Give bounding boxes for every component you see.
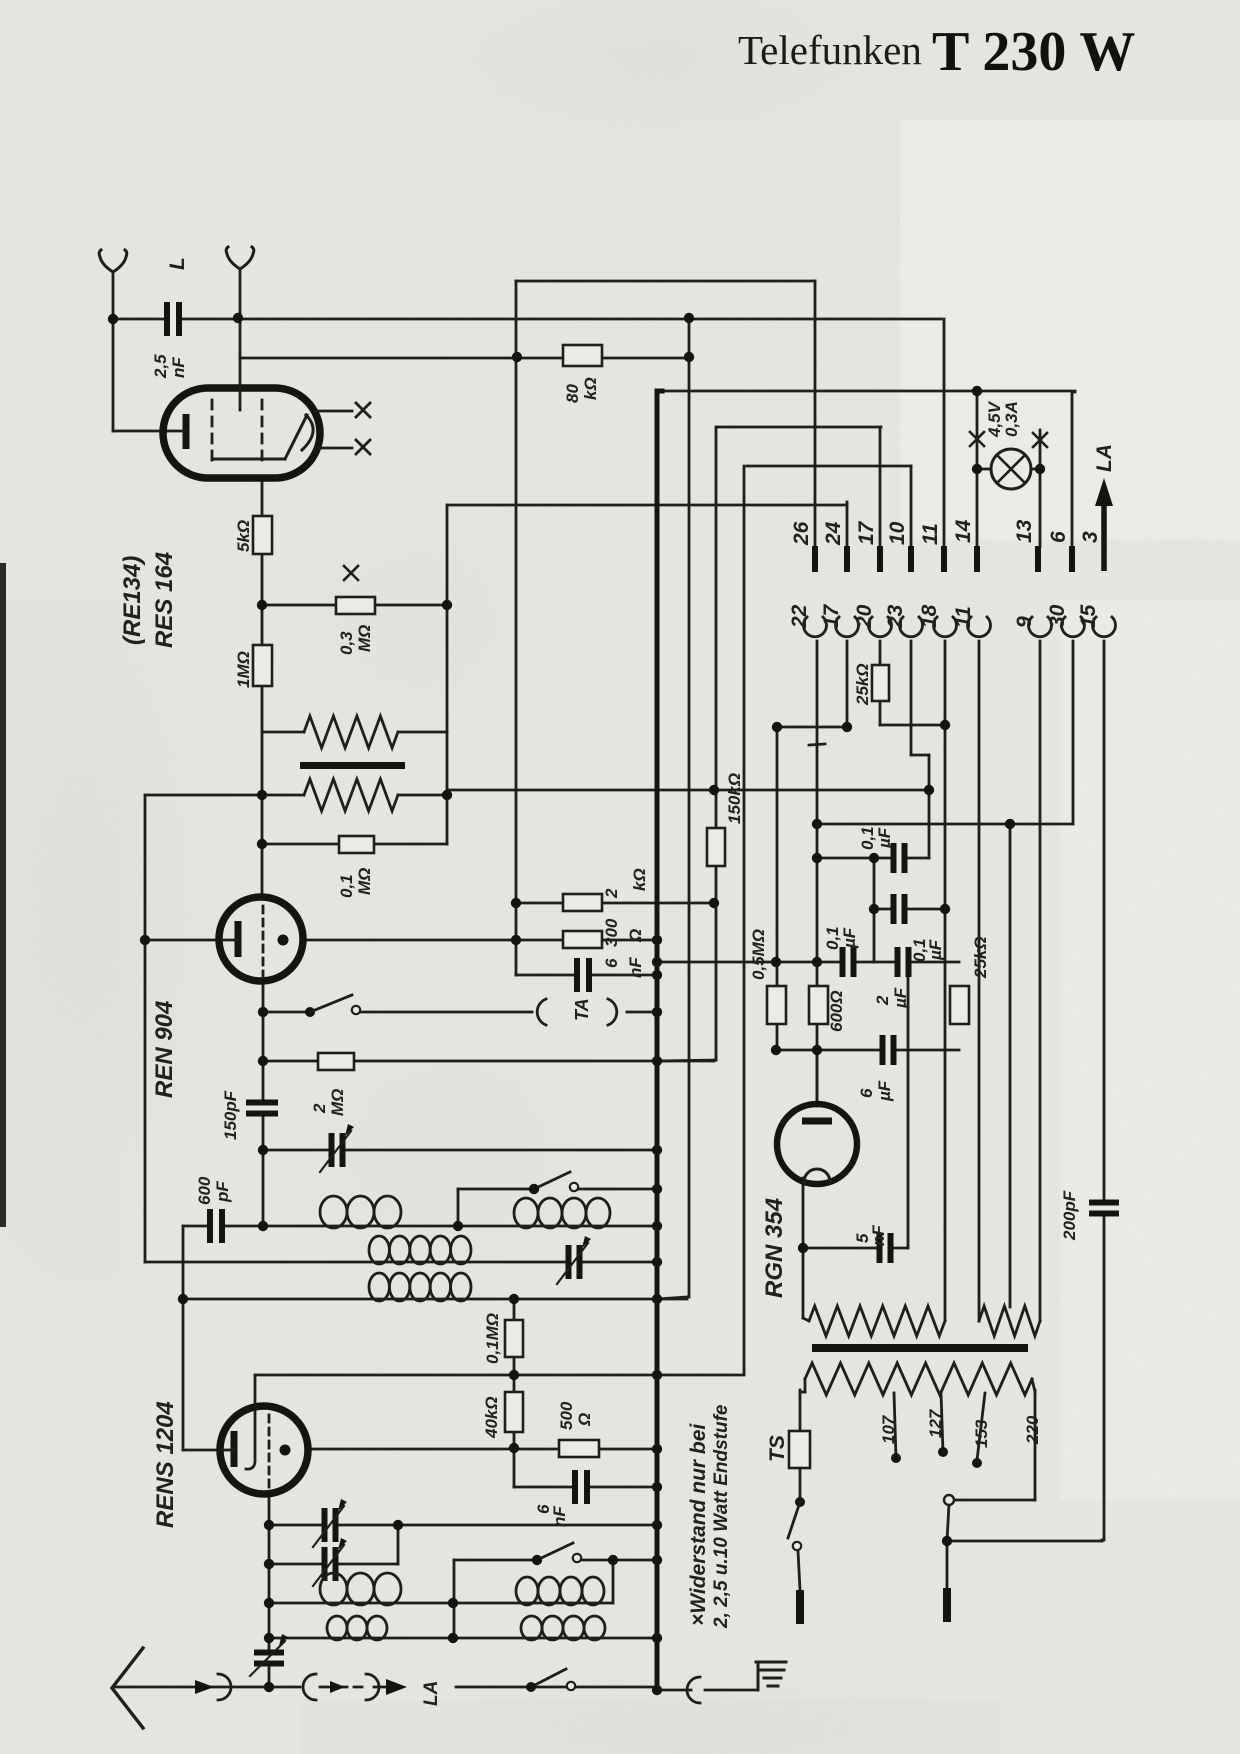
wire TA line right bbox=[627, 1011, 657, 1014]
mains transformer core bbox=[812, 1344, 1028, 1352]
resistor 5k bbox=[253, 516, 272, 554]
connector arc 4 bbox=[687, 1677, 700, 1703]
wire left column x145 bbox=[144, 795, 147, 1262]
wire column x716 bbox=[715, 427, 718, 1060]
wire socket9 column x1040 bbox=[1039, 641, 1042, 1321]
wire TA line mid bbox=[361, 1011, 532, 1014]
svg-text:80: 80 bbox=[563, 384, 582, 403]
wire transformer secondary lead right bbox=[398, 794, 447, 797]
tube RES164 (RE134) envelope bbox=[163, 388, 320, 478]
wire coil riser x613 bbox=[612, 1560, 615, 1603]
wire RENS1204 left lead bbox=[183, 1449, 222, 1452]
wire grid/80k line y357 bbox=[240, 357, 689, 360]
wire corner y1297 bbox=[657, 1297, 687, 1299]
arrow right small on bottom line bbox=[195, 1680, 214, 1694]
svg-text:22: 22 bbox=[788, 604, 811, 629]
resistor 0,5M bbox=[767, 986, 786, 1024]
wire RENS grid line y1375 bbox=[255, 1374, 744, 1377]
svg-text:0,3A: 0,3A bbox=[1002, 401, 1021, 437]
wire column x689 bbox=[688, 318, 691, 1297]
svg-text:6: 6 bbox=[1047, 531, 1070, 543]
svg-text:Ω: Ω bbox=[575, 1413, 594, 1427]
wire TA line left bbox=[263, 1011, 310, 1014]
svg-text:24: 24 bbox=[822, 521, 845, 546]
variable capacitor row2 bbox=[568, 1245, 581, 1279]
resistor 300ohm bbox=[563, 931, 602, 948]
capacitor 600pF bbox=[209, 1209, 223, 1243]
variable capacitor antenna trimmer bbox=[254, 1652, 284, 1665]
svg-text:9: 9 bbox=[1013, 616, 1036, 628]
tick mark on socket22 column bbox=[809, 744, 825, 745]
wire coil row3 y1299 bbox=[183, 1298, 687, 1301]
wire cap link y858 bbox=[817, 857, 929, 860]
variable capacitor RENS no2 bbox=[324, 1547, 337, 1581]
mains prong left bbox=[796, 1590, 804, 1624]
svg-text:20: 20 bbox=[853, 604, 876, 629]
wire 6nF line y975 bbox=[516, 974, 657, 977]
resistor 150k bbox=[707, 828, 725, 866]
wire switch line y1560 bbox=[454, 1559, 537, 1562]
svg-text:150kΩ: 150kΩ bbox=[725, 773, 744, 824]
wire terminal17 column x880 bbox=[879, 427, 882, 546]
resistor 25k top bbox=[872, 665, 889, 701]
mains prong right bbox=[943, 1588, 951, 1622]
heater winding A (RGN filament) bbox=[809, 1306, 945, 1336]
capacitor 150pF bbox=[246, 1102, 278, 1115]
resistor 0,1M top bbox=[339, 836, 374, 853]
RES164 anode curve bbox=[302, 415, 313, 450]
resistor 0,1M RENS bbox=[505, 1320, 523, 1357]
wire mains column x947 bbox=[947, 1504, 949, 1541]
svg-text:11: 11 bbox=[919, 523, 942, 545]
capacitor 0,1uF no2 bbox=[893, 894, 906, 924]
svg-text:2: 2 bbox=[602, 888, 621, 899]
transformer T1 secondary winding bbox=[304, 779, 398, 811]
wire socket20 link y725 bbox=[880, 724, 945, 727]
wire to ground bbox=[705, 1689, 758, 1692]
svg-text:RES 164: RES 164 bbox=[151, 552, 178, 648]
x mark filament lead 1 bbox=[356, 403, 370, 417]
wire LA terminal column x1104 bbox=[1103, 500, 1106, 525]
terminal 26 stub bbox=[812, 546, 818, 572]
coil L5a RENS rowB bbox=[327, 1616, 387, 1640]
svg-text:26: 26 bbox=[790, 521, 813, 546]
wire mains link y1541 bbox=[947, 1540, 1102, 1543]
svg-text:200pF: 200pF bbox=[1060, 1190, 1079, 1241]
terminal 24 stub bbox=[844, 546, 850, 572]
wire antenna1 stem bbox=[112, 272, 115, 431]
svg-text:×Widerstand nur bei: ×Widerstand nur bei bbox=[687, 1423, 710, 1626]
antenna 2 symbol bbox=[226, 247, 254, 269]
wire tap127 bbox=[941, 1393, 943, 1452]
svg-text:REN 904: REN 904 bbox=[151, 1001, 178, 1098]
terminal 6 stub bbox=[1069, 546, 1075, 572]
wire socket23 column x911 bbox=[910, 641, 913, 755]
svg-text:3: 3 bbox=[1079, 531, 1102, 543]
svg-text:23: 23 bbox=[884, 604, 907, 629]
svg-text:25kΩ: 25kΩ bbox=[853, 663, 872, 706]
wire column x516 bbox=[515, 281, 518, 975]
RES164 cathode bar bbox=[183, 414, 190, 449]
socket 11 bbox=[968, 617, 991, 637]
RES164 anode diagonal bbox=[285, 415, 307, 459]
wire switch line y1189 right bbox=[578, 1188, 657, 1191]
wire y505 to terminal 24 bbox=[447, 504, 847, 507]
wire coil row2 y1262 bbox=[145, 1261, 657, 1264]
RES164 grid dashed 2 bbox=[261, 400, 264, 460]
capacitor 0,1uF no3 bbox=[842, 947, 855, 977]
svg-text:Ω: Ω bbox=[626, 929, 645, 943]
antenna big arrow bottom left bbox=[112, 1648, 143, 1728]
REN904 grid dashed bbox=[262, 906, 265, 976]
svg-text:18: 18 bbox=[918, 604, 941, 628]
wire transformer primary lead right bbox=[398, 731, 447, 734]
wire 300ohm line y940 bbox=[516, 939, 657, 942]
svg-text:0,5MΩ: 0,5MΩ bbox=[749, 929, 768, 980]
resistor 500ohm bbox=[559, 1440, 599, 1457]
resistor 1M bbox=[253, 645, 272, 686]
terminal 14 stub bbox=[974, 546, 980, 572]
wire switch line y1189 bbox=[458, 1188, 534, 1191]
wire lamp right column x1040 bbox=[1039, 430, 1042, 546]
svg-text:LA: LA bbox=[1093, 444, 1116, 472]
svg-text:25kΩ: 25kΩ bbox=[971, 936, 990, 979]
socket 20 bbox=[869, 617, 892, 637]
resistor 40k bbox=[505, 1392, 523, 1432]
wire socket17 link y727 bbox=[777, 726, 847, 729]
svg-text:0,1: 0,1 bbox=[337, 874, 356, 898]
socket 30 bbox=[1062, 617, 1085, 637]
tube RGN354 envelope bbox=[777, 1104, 857, 1184]
RES164 inner bottom bar bbox=[212, 458, 285, 461]
connector arc 2 bbox=[303, 1674, 316, 1700]
coil L4b RENS rowA bbox=[516, 1577, 604, 1605]
wire column x447 bbox=[446, 505, 449, 844]
capacitor 6nF grid trio bbox=[576, 958, 590, 992]
svg-text:µF: µF bbox=[840, 927, 859, 949]
wire antenna1 to tube bbox=[113, 430, 168, 433]
svg-text:220: 220 bbox=[1023, 1415, 1042, 1445]
wire socket30 column x1073 bbox=[1072, 641, 1075, 824]
svg-text:300: 300 bbox=[602, 918, 621, 947]
wire left column x183 bbox=[182, 1226, 185, 1450]
coil L1a row1 bbox=[320, 1196, 401, 1228]
svg-text:30: 30 bbox=[1046, 604, 1069, 628]
wire B+ y824 bbox=[817, 823, 1073, 826]
wire column x777 bbox=[776, 727, 779, 1050]
x mark lamp right bbox=[1033, 433, 1047, 447]
switch bottom already drawn dot bbox=[526, 1682, 536, 1692]
wire 2k line y903 bbox=[516, 902, 714, 905]
wire 2M line y1061 bbox=[263, 1060, 714, 1063]
wire cap2 link y909 bbox=[874, 908, 945, 911]
svg-text:1MΩ: 1MΩ bbox=[234, 651, 253, 688]
wire RENS anode line y1525 bbox=[269, 1524, 657, 1527]
svg-text:Telefunken: Telefunken bbox=[738, 27, 922, 73]
wire fuse column x800 bbox=[799, 1390, 802, 1431]
mains switch bbox=[795, 1497, 805, 1507]
wire bottom line seg1 bbox=[113, 1686, 300, 1689]
wire REN904 plate line right bbox=[303, 939, 516, 942]
capacitor 5nF bbox=[879, 1233, 892, 1263]
wire RENS coil rowA y1603 bbox=[269, 1602, 613, 1605]
tube REN904 envelope bbox=[219, 897, 303, 981]
svg-text:127: 127 bbox=[926, 1408, 945, 1438]
switch bottom contact bbox=[567, 1682, 575, 1690]
svg-text:MΩ: MΩ bbox=[355, 868, 374, 895]
wire switch drop x458 bbox=[457, 1189, 460, 1226]
wire cathode line y962 bbox=[657, 961, 959, 964]
wire transformer secondary baseline y795 bbox=[145, 794, 304, 797]
wire RENS grid cap column x255 bbox=[246, 1375, 255, 1469]
TA jack arc right bbox=[608, 999, 617, 1025]
socket 15 bbox=[1093, 617, 1116, 637]
socket 22 bbox=[804, 617, 827, 637]
svg-text:11: 11 bbox=[952, 606, 975, 628]
wire REN904 grid column x263 bbox=[262, 979, 265, 1226]
REN904 anode dot bbox=[278, 935, 289, 946]
wire socket15 column x1104 bbox=[1103, 641, 1106, 1540]
wire RGN354 top lead x817 (included above) bbox=[816, 1050, 819, 1106]
wire RES164 plate column x262 bbox=[261, 476, 264, 897]
wire socket17 column x847 bbox=[846, 641, 849, 727]
svg-text:0,3: 0,3 bbox=[337, 631, 356, 655]
wire bottom line seg3 bbox=[657, 1689, 691, 1692]
wire socket20 column x880 bbox=[879, 641, 882, 725]
svg-text:5kΩ: 5kΩ bbox=[234, 520, 253, 552]
resistor 2M bbox=[318, 1053, 354, 1070]
wire primary right column x1035 bbox=[1034, 1390, 1037, 1500]
mains primary winding bbox=[805, 1363, 1032, 1395]
REN904 cathode bar bbox=[235, 921, 242, 957]
wire y427 to terminal 17 bbox=[717, 426, 881, 429]
x mark lamp left bbox=[970, 432, 984, 446]
RES164 filament leads bbox=[316, 410, 352, 413]
wire selector line y1500 bbox=[954, 1499, 1035, 1502]
capacitor 200pF bbox=[1089, 1202, 1119, 1215]
wire column x874 bbox=[873, 858, 876, 962]
paper mottling bbox=[0, 0, 900, 230]
svg-text:T 230 W: T 230 W bbox=[932, 21, 1135, 83]
antenna 1 symbol bbox=[99, 250, 127, 272]
connector arc 1 bbox=[218, 1674, 231, 1700]
svg-text:(RE134): (RE134) bbox=[119, 556, 146, 645]
svg-text:600: 600 bbox=[195, 1176, 214, 1205]
capacitor 6uF bbox=[882, 1035, 895, 1065]
socket 17 bbox=[836, 617, 859, 637]
ground symbol bbox=[756, 1662, 786, 1690]
RES164 grid dashed 1 bbox=[211, 400, 214, 460]
capacitor 0,1uF no1 bbox=[893, 843, 906, 873]
svg-text:LA: LA bbox=[421, 1681, 442, 1706]
svg-text:17: 17 bbox=[855, 520, 878, 545]
svg-text:500: 500 bbox=[557, 1401, 576, 1430]
svg-text:µF: µF bbox=[926, 939, 945, 961]
socket 23 bbox=[900, 617, 923, 637]
capacitor 2uF bbox=[897, 947, 910, 977]
wire 0,1M grid line y844 bbox=[262, 843, 447, 846]
wire column x514 bbox=[513, 1299, 516, 1487]
wire tap153 bbox=[977, 1393, 985, 1460]
coil L4a RENS rowA bbox=[320, 1573, 401, 1605]
variable capacitor RENS no1 bbox=[324, 1508, 337, 1542]
wire y466 to terminal 10 bbox=[747, 465, 911, 468]
svg-text:153: 153 bbox=[972, 1419, 991, 1448]
switch wave band 3 (y1560) bbox=[532, 1555, 542, 1565]
wire terminal6 corner y392 bbox=[1072, 391, 1075, 394]
wire socket11 column x979 bbox=[978, 641, 981, 1321]
svg-text:TA: TA bbox=[572, 998, 592, 1021]
resistor 600ohm bbox=[809, 986, 828, 1024]
wire lamp left column x977 bbox=[976, 391, 979, 546]
TA jack arc left bbox=[537, 999, 546, 1025]
wire tap107 bbox=[894, 1393, 896, 1458]
x mark near 0,3M bbox=[344, 566, 358, 580]
main bus x657 bbox=[655, 391, 660, 1692]
wire smoothing line y1050 bbox=[776, 1049, 959, 1052]
wire antenna bus y318 bbox=[113, 318, 941, 321]
switch bottom blade bbox=[531, 1669, 566, 1687]
primary left end drop bbox=[804, 1379, 807, 1392]
wire terminal26 column x815 bbox=[814, 281, 817, 546]
fuse TS bbox=[789, 1431, 810, 1468]
svg-text:kΩ: kΩ bbox=[630, 868, 649, 891]
wire column x744 bbox=[743, 466, 746, 1374]
wire switch drop x454 bbox=[453, 1560, 456, 1638]
svg-text:107: 107 bbox=[879, 1414, 898, 1444]
svg-text:µF: µF bbox=[875, 1080, 894, 1102]
arrow mid dashed bbox=[330, 1681, 345, 1693]
wire socket22 column x817 bbox=[816, 641, 819, 1104]
switch wave band 1 (TA line) bbox=[305, 1007, 315, 1017]
transformer T1 primary winding bbox=[304, 716, 398, 748]
wire long feed y790 bbox=[447, 789, 929, 792]
svg-text:6: 6 bbox=[857, 1088, 876, 1098]
RES164 grid top lead into tube bbox=[239, 388, 242, 410]
coil L3 row3 bbox=[369, 1273, 471, 1301]
wire socket15 corner bbox=[1101, 1540, 1104, 1541]
wire fuse to switch bbox=[799, 1468, 802, 1500]
svg-text:nF: nF bbox=[869, 1225, 888, 1246]
switch wave band 2 (y1189) bbox=[529, 1184, 539, 1194]
connector arc 3 bbox=[366, 1674, 379, 1700]
RGN354 anode arc bbox=[804, 1169, 830, 1182]
svg-text:14: 14 bbox=[952, 519, 975, 543]
svg-text:µF: µF bbox=[891, 987, 910, 1009]
arrow LA right bbox=[386, 1679, 407, 1695]
terminal 10 stub bbox=[908, 546, 914, 572]
svg-text:MΩ: MΩ bbox=[328, 1089, 347, 1116]
wire heater lead corner bbox=[803, 1318, 809, 1321]
RGN354 filament bar bbox=[802, 1118, 832, 1125]
wire switch line y1560 right bbox=[581, 1559, 657, 1562]
RENS1204 anode dot bbox=[280, 1445, 291, 1456]
wire terminal6 column x1072 bbox=[1071, 392, 1074, 546]
lamp 4,5V 0,3A bbox=[991, 449, 1031, 489]
svg-text:6: 6 bbox=[602, 958, 621, 968]
svg-text:pF: pF bbox=[213, 1181, 232, 1203]
scanner edge mark bbox=[0, 563, 6, 1227]
wire var cap link x398 bbox=[397, 1525, 400, 1564]
wire top link y281 bbox=[516, 280, 815, 283]
bus corner y391 bbox=[657, 389, 662, 394]
svg-text:10: 10 bbox=[886, 521, 909, 545]
terminal 11 stub bbox=[941, 546, 947, 572]
svg-text:17: 17 bbox=[820, 603, 843, 628]
wire 5nF line y1248 bbox=[803, 1247, 908, 1250]
voltage selector contact bbox=[944, 1495, 954, 1505]
RENS1204 grid dashed bbox=[268, 1415, 271, 1487]
coil L1b row1 bbox=[514, 1198, 610, 1228]
tap dots bbox=[891, 1453, 901, 1463]
svg-text:2: 2 bbox=[310, 1103, 329, 1114]
wire RGN354 bottom lead x803 bbox=[802, 1178, 805, 1318]
wire terminal10 column x911 bbox=[910, 466, 913, 546]
wire column x929 bbox=[928, 755, 931, 858]
svg-text:40kΩ: 40kΩ bbox=[482, 1396, 501, 1439]
wire LA arrow lead bbox=[374, 1686, 388, 1689]
coil L5b RENS rowB bbox=[521, 1616, 605, 1640]
heater winding B with center tap bbox=[979, 1306, 1040, 1336]
resistor 80k bbox=[563, 345, 602, 366]
wire plate supply y391 bbox=[659, 390, 1075, 393]
terminal 13 stub bbox=[1035, 546, 1041, 572]
svg-text:TS: TS bbox=[766, 1435, 789, 1462]
wire RENS cathode line y1448 bbox=[306, 1448, 657, 1451]
terminal 17 stub bbox=[877, 546, 883, 572]
socket 9 bbox=[1029, 617, 1052, 637]
svg-text:µF: µF bbox=[875, 827, 894, 849]
wire heater CT column x1010 bbox=[1009, 824, 1012, 1307]
coil L2 row2 bbox=[369, 1236, 471, 1264]
LA arrow terminal 3 bbox=[1101, 504, 1107, 571]
wire tuning line y1150 bbox=[263, 1149, 657, 1152]
wire 0,3M line y605 bbox=[262, 604, 447, 607]
svg-text:2,5: 2,5 bbox=[151, 354, 170, 379]
socket 18 bbox=[934, 617, 957, 637]
svg-text:RGN 354: RGN 354 bbox=[761, 1198, 788, 1298]
variable capacitor REN904 tuning bbox=[331, 1133, 344, 1167]
resistor 2k bbox=[563, 894, 602, 911]
capacitor 6nF RENS bbox=[574, 1470, 588, 1504]
svg-text:nF: nF bbox=[550, 1506, 569, 1527]
svg-text:nF: nF bbox=[626, 957, 645, 978]
wire terminal11 column x944 bbox=[943, 319, 946, 546]
wire coil row1 y1226 bbox=[183, 1225, 657, 1228]
wire terminal24 column x847 bbox=[846, 502, 849, 546]
svg-text:150pF: 150pF bbox=[221, 1090, 240, 1140]
wire column x908 bbox=[907, 962, 910, 1248]
svg-text:15: 15 bbox=[1077, 604, 1100, 628]
wire bottom line seg2 bbox=[456, 1686, 657, 1689]
svg-text:600Ω: 600Ω bbox=[827, 990, 846, 1032]
resistor 25k lower bbox=[950, 986, 969, 1024]
svg-text:2, 2,5 u.10 Watt Endstufe: 2, 2,5 u.10 Watt Endstufe bbox=[711, 1404, 732, 1629]
transformer T1 core bbox=[300, 762, 405, 769]
primary right end drop bbox=[1032, 1379, 1035, 1392]
wire RENS anode line2 y1564 bbox=[269, 1563, 398, 1566]
x mark filament lead 2 bbox=[356, 440, 370, 454]
resistor 0,3M bbox=[336, 597, 375, 614]
svg-text:RENS 1204: RENS 1204 bbox=[152, 1401, 179, 1528]
capacitor 2,5nF antenna bbox=[166, 302, 180, 336]
svg-text:2: 2 bbox=[873, 995, 892, 1006]
wire transformer primary lead left bbox=[262, 731, 304, 734]
svg-text:MΩ: MΩ bbox=[355, 625, 374, 652]
svg-text:13: 13 bbox=[1013, 519, 1036, 543]
wire REN904 plate line left bbox=[145, 939, 219, 942]
wire 6nF RENS line y1487 bbox=[514, 1486, 657, 1489]
